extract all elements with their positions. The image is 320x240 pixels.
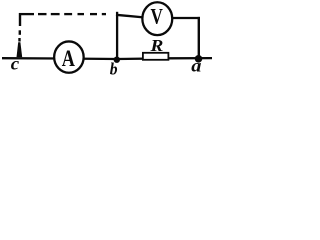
svg-text:c: c [11,54,19,74]
svg-text:R: R [149,36,163,55]
svg-text:V: V [150,5,163,30]
svg-text:b: b [110,61,118,78]
svg-text:A: A [62,47,75,71]
svg-text:a: a [191,57,202,77]
